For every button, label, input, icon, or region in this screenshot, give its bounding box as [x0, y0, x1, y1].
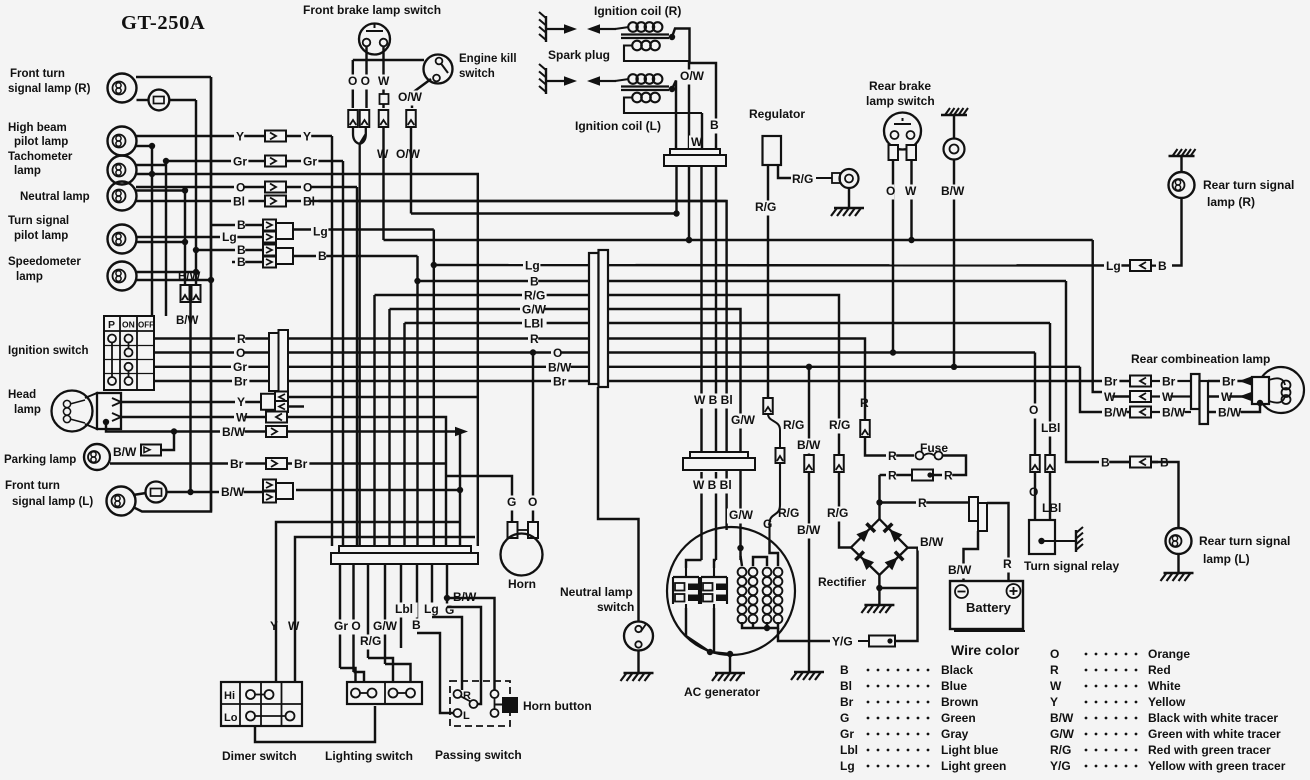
label R fuse row2 left: [886, 469, 896, 484]
svg-text:B/W: B/W: [548, 360, 572, 374]
wire R/G bus 295: [375, 295, 852, 548]
small connector square on W: [380, 94, 389, 104]
wire B row lower stub: [232, 261, 263, 263]
svg-text:O: O: [886, 184, 895, 198]
ground spark plug R: [539, 12, 546, 42]
horn terminals: [508, 522, 518, 538]
wire high beam tap: [136, 145, 152, 147]
connector battery relay step: [969, 497, 978, 521]
ground rectifier: [861, 605, 894, 613]
svg-text:W: W: [905, 184, 917, 198]
svg-text:Ignition switch: Ignition switch: [8, 345, 89, 357]
svg-text:Dimer switch: Dimer switch: [222, 749, 297, 763]
svg-text:Tachometer: Tachometer: [8, 151, 73, 163]
svg-text:R/G: R/G: [1050, 743, 1071, 757]
svg-text:O: O: [528, 495, 537, 509]
label B/W rectifier: [918, 536, 943, 551]
wire vertical x460 B/W: [459, 432, 461, 547]
wire rectifier bottom to B/W vertical: [879, 587, 917, 589]
label B/W bundle: [451, 591, 476, 606]
wire Br row cont: [288, 380, 589, 382]
bullet connector O1: [348, 110, 358, 127]
wire W to rear lamp: [1208, 395, 1252, 397]
label Lg row: [220, 231, 237, 246]
wire O bus 352 right segment: [607, 351, 1035, 353]
svg-text:Y: Y: [236, 130, 244, 144]
svg-text:Br: Br: [1222, 375, 1236, 389]
svg-text:R: R: [860, 396, 869, 410]
svg-text:Red with green tracer: Red with green tracer: [1148, 743, 1271, 757]
wire flasher to B node: [169, 99, 196, 101]
arrow Br into lamp: [1239, 376, 1252, 386]
wire bus 213 O/W: [411, 212, 677, 214]
svg-text:Gr: Gr: [233, 155, 247, 169]
svg-text:B/W: B/W: [1218, 406, 1242, 420]
contact breaker and condenser 2: [701, 568, 727, 608]
wire B/W front turn L row: [167, 491, 264, 493]
label Br ignition row: [232, 375, 249, 390]
label R fuse row2 right: [942, 469, 952, 484]
pin Y/G connector: [887, 638, 892, 643]
wire row Y: [232, 135, 332, 137]
svg-text:R: R: [530, 332, 539, 346]
label B/W rear right: [1216, 406, 1241, 421]
wire bundle below 385: [384, 564, 386, 664]
wire vertical x152 to ignition switch: [151, 146, 153, 316]
label B/W battery: [946, 564, 971, 579]
wire Lg bus 265: [434, 264, 1160, 267]
wire W down to W bus: [382, 127, 384, 240]
junction W bus coil: [686, 237, 692, 243]
regulator symbol: [763, 136, 782, 165]
svg-text:Light blue: Light blue: [941, 743, 999, 757]
label R/G regulator wire mid: [781, 419, 806, 434]
wire O into lighting switch: [354, 672, 365, 682]
svg-text:R/G: R/G: [360, 634, 381, 648]
wire B row rear: [1103, 461, 1130, 463]
wire B row upper: [211, 224, 263, 226]
svg-text:Br: Br: [230, 457, 244, 471]
bullet connector B/W rear: [1130, 407, 1151, 418]
ring terminal regulator: [832, 173, 840, 183]
bullet connector B/W left: [181, 285, 190, 302]
wire bus Bl corner down x726: [310, 201, 727, 455]
bullet connector Br rear: [1130, 376, 1151, 387]
wire coil connector down 716 to magneto: [715, 166, 717, 455]
svg-text:W B Bl: W B Bl: [693, 478, 732, 492]
svg-text:Turn signal relay: Turn signal relay: [1024, 559, 1119, 573]
junction coil L: [669, 86, 675, 92]
junction neutral stub: [182, 187, 188, 193]
wire LBl bus 323: [405, 322, 590, 324]
connector parking lamp: [141, 445, 161, 456]
connector Y/G: [869, 636, 895, 647]
wire R bus 339 right segment: [607, 339, 865, 421]
wire Lg into passing R: [432, 617, 462, 690]
svg-text:lamp: lamp: [14, 404, 41, 416]
svg-text:R: R: [1003, 557, 1012, 571]
wire regulator to ring terminal: [778, 165, 791, 178]
svg-text:Bl: Bl: [233, 195, 245, 209]
svg-text:Lo: Lo: [224, 712, 238, 724]
relay terminal dot: [1038, 538, 1044, 544]
label Br bus: [551, 375, 568, 390]
wire W output to bundle: [287, 417, 446, 546]
label Gr row Gr right: [301, 155, 318, 170]
svg-text:Br: Br: [294, 457, 308, 471]
bullet connector W rear: [1130, 391, 1151, 402]
svg-text:B: B: [237, 255, 246, 269]
label R/G regulator: [753, 201, 778, 216]
wire W into generator: [700, 472, 702, 560]
label Br row left: [228, 458, 245, 473]
svg-text:Y: Y: [303, 130, 311, 144]
rear turn signal lamp (R): [1169, 172, 1195, 198]
svg-text:Lighting switch: Lighting switch: [325, 749, 413, 763]
junction W bus rear brake: [908, 237, 914, 243]
label Br rear mid: [1160, 375, 1177, 390]
wire Y head lamp row: [121, 401, 263, 403]
wire Gr row cont: [288, 366, 589, 368]
svg-text:Horn: Horn: [508, 577, 536, 591]
dimmer switch table: [221, 682, 302, 726]
svg-text:Gr O: Gr O: [334, 619, 361, 633]
bullet connector Br: [266, 458, 287, 469]
wire ring terminal ground: [848, 188, 850, 208]
arrowhead right spark L: [564, 76, 577, 86]
svg-text:W: W: [1104, 390, 1116, 404]
wire vertical LBl x404 to bundle: [403, 323, 405, 546]
wire R/G ring lead: [816, 177, 833, 179]
wire R row to relay connector: [880, 501, 970, 503]
label R ignition row: [235, 333, 245, 348]
wire rear brake O down: [892, 160, 894, 353]
svg-text:O: O: [236, 346, 245, 360]
svg-text:lamp: lamp: [16, 271, 43, 283]
svg-text:Turn signal: Turn signal: [8, 215, 69, 227]
svg-text:R/G: R/G: [827, 506, 848, 520]
svg-text:Lg: Lg: [424, 602, 439, 616]
wire dimmer to lighting switch: [255, 706, 375, 742]
front brake lamp switch symbol: [359, 24, 390, 55]
svg-text:B/W: B/W: [797, 523, 821, 537]
label Y W dimmer: [268, 620, 278, 635]
wire Br bus 381 right segment: [607, 380, 1103, 382]
junction B bus start: [414, 278, 420, 284]
wire Gr row from ignition switch: [154, 366, 269, 368]
wire B output row: [293, 255, 418, 257]
wire Br row from ignition switch: [154, 380, 269, 382]
passing switch dashed box: [450, 681, 510, 726]
svg-text:Horn button: Horn button: [523, 699, 592, 713]
wire coil connector down 701 to magneto: [700, 166, 702, 455]
label Bl row Bl left: [231, 195, 248, 210]
arrow B/W into vertical: [455, 427, 468, 437]
label O W rear brake: [884, 185, 894, 200]
wire front turn R to node B: [136, 76, 211, 78]
wire B/W to rear lamp: [1208, 403, 1260, 412]
wire B/W front turn output: [296, 489, 460, 491]
ignition coil (L) symbol: [615, 74, 702, 113]
wire G/W into lighting switch: [385, 664, 411, 682]
wire front brake O1 jog: [353, 59, 424, 61]
svg-text:Green with white tracer: Green with white tracer: [1148, 727, 1281, 741]
svg-text:G/W: G/W: [373, 619, 398, 633]
ground rear turn signal R: [1169, 149, 1196, 156]
label B/W bus: [546, 361, 571, 376]
label B row 3: [235, 256, 245, 271]
svg-text:Lg: Lg: [525, 259, 540, 273]
wire W to dimmer: [295, 537, 475, 682]
svg-text:Y: Y: [237, 395, 245, 409]
label G horn: [505, 496, 515, 511]
label B/W generator lower: [795, 524, 820, 539]
wire O1 vertical: [352, 60, 354, 108]
bullet connector regulator R/G: [763, 398, 773, 414]
wire B/W below bullet: [808, 472, 810, 672]
svg-text:Yellow: Yellow: [1148, 695, 1186, 709]
junction R battery branch: [876, 499, 882, 505]
wire fuse right corner: [880, 456, 967, 476]
wire tach stub: [136, 164, 166, 166]
wire B/W into horn button: [447, 598, 495, 690]
wire B to rear turn L: [1151, 462, 1179, 528]
wire vertical x185 to B/W connector: [184, 191, 186, 286]
wire vertical Gr x343: [342, 161, 344, 546]
ground turn signal relay: [1076, 527, 1083, 552]
front turn signal lamp (L): [107, 487, 136, 516]
wire B bus 281: [418, 280, 1067, 282]
double connector B/Lg: [263, 220, 293, 243]
flasher unit front turn L: [146, 482, 167, 503]
svg-text:Rectifier: Rectifier: [818, 575, 866, 589]
svg-text:Yellow with green tracer: Yellow with green tracer: [1148, 759, 1286, 773]
svg-text:Head: Head: [8, 389, 36, 401]
label Y row Y left: [234, 130, 244, 145]
svg-text:B/W: B/W: [920, 535, 944, 549]
svg-text:R: R: [888, 449, 897, 463]
lighting switch contacts 1: [351, 689, 360, 698]
svg-text:lamp switch: lamp switch: [866, 94, 935, 108]
wire Y output to bundle: [288, 396, 478, 398]
label Lg bus: [523, 259, 540, 274]
svg-text:Ignition coil (R): Ignition coil (R): [594, 4, 681, 18]
svg-text:B: B: [1158, 259, 1167, 273]
label Br rear left: [1102, 375, 1119, 390]
wire relay ground lead: [1042, 540, 1077, 542]
svg-text:W: W: [378, 74, 390, 88]
svg-text:B: B: [840, 663, 849, 677]
svg-text:AC generator: AC generator: [684, 685, 760, 699]
wire B to connector from x196: [196, 249, 263, 251]
wire rear turn R ground: [1180, 156, 1182, 172]
svg-text:R/G: R/G: [755, 200, 776, 214]
svg-text:P: P: [108, 319, 115, 331]
label Gr row Gr left: [231, 155, 248, 170]
head lamp symbol: [52, 391, 122, 432]
wire vertical Y x332: [331, 136, 333, 546]
svg-text:Br: Br: [234, 375, 248, 389]
wire B/W ground down: [953, 115, 955, 139]
wire front brake O1: [365, 47, 367, 109]
label Y head lamp: [235, 396, 245, 411]
wire Br rear row: [1103, 380, 1130, 382]
bullet connector B/W head lamp: [266, 426, 287, 437]
wire B/W rear row: [1103, 411, 1130, 413]
wire vertical O x357: [356, 187, 358, 546]
svg-text:OFF: OFF: [138, 321, 154, 330]
svg-text:B: B: [710, 118, 719, 132]
junction B x196: [193, 247, 199, 253]
label O above: [1027, 404, 1037, 419]
svg-text:White: White: [1148, 679, 1181, 693]
generator coil top connections: [741, 556, 743, 566]
svg-text:Parking lamp: Parking lamp: [4, 454, 76, 466]
double connector B/W front turn L: [263, 480, 293, 503]
wire brake O merge: [353, 127, 366, 546]
bullet connector B rear: [1130, 457, 1151, 468]
connector ignition harness tall: [269, 333, 279, 391]
wire front turn L to flasher: [133, 493, 146, 495]
wire O bus corner down x1035: [1034, 353, 1036, 456]
bullet connector O2: [360, 110, 370, 127]
wire coil connector down 676: [675, 166, 677, 214]
label G lower: [761, 518, 771, 533]
label Br row right: [292, 458, 309, 473]
junction O/W at bus 213: [673, 210, 679, 216]
svg-text:Lg: Lg: [222, 230, 237, 244]
rear brake terminals: [889, 145, 899, 160]
rectifier diodes: [856, 522, 876, 542]
bullet connector Gr: [265, 156, 286, 167]
wire speedo stub1: [136, 271, 196, 273]
wire bundle below 340: [339, 564, 341, 668]
svg-text:B: B: [412, 618, 421, 632]
svg-text:G/W: G/W: [731, 413, 756, 427]
wire B/W bus corner down x1080: [1080, 367, 1103, 412]
svg-text:Rear turn signal: Rear turn signal: [1199, 534, 1290, 548]
label B output: [316, 250, 326, 265]
ground B/W frame: [941, 108, 968, 115]
label B row 2: [235, 244, 245, 259]
wire connector to battery minus B/W: [964, 531, 979, 581]
wire front brake W: [382, 47, 384, 109]
svg-text:Blue: Blue: [941, 679, 967, 693]
connector handlebar bundle bar: [339, 546, 471, 553]
svg-text:B/W: B/W: [222, 425, 246, 439]
wire engine kill O/W: [412, 79, 431, 108]
tachometer lamp: [108, 156, 137, 185]
ground AC generator: [712, 673, 745, 681]
svg-text:Front turn: Front turn: [5, 480, 60, 492]
wire LBl into relay: [1049, 472, 1051, 520]
wire Br to rear lamp: [1208, 380, 1252, 382]
svg-text:signal lamp (L): signal lamp (L): [12, 496, 93, 508]
svg-text:R/G: R/G: [792, 172, 813, 186]
svg-text:G: G: [840, 711, 849, 725]
wire B into generator: [715, 472, 717, 560]
connector main harness tall: [589, 253, 599, 384]
svg-text:Gr: Gr: [233, 360, 247, 374]
wire neutral stub: [136, 189, 185, 191]
contact breaker and condenser 1: [673, 568, 699, 608]
coil L output to W vertical: [672, 81, 676, 150]
label B rear turn R: [1156, 260, 1166, 275]
label R battery: [1001, 558, 1011, 573]
connector fuse row2: [912, 470, 933, 481]
svg-text:R/G: R/G: [524, 289, 545, 303]
svg-text:W: W: [236, 411, 248, 425]
svg-text:Gr: Gr: [840, 727, 854, 741]
wire bundle below 447: [446, 564, 448, 607]
svg-text:Front turn: Front turn: [10, 68, 65, 80]
label R/G near rectifier lower: [825, 507, 850, 522]
svg-text:Rear brake: Rear brake: [869, 79, 931, 93]
svg-text:GT-250A: GT-250A: [121, 12, 205, 34]
wire B/W single down to front turn L row: [189, 302, 191, 492]
label O horn: [526, 496, 536, 511]
svg-text:R: R: [888, 469, 897, 483]
wire O into relay: [1034, 472, 1036, 520]
wire R to fuse: [865, 437, 914, 456]
svg-text:Neutral lamp: Neutral lamp: [20, 191, 90, 203]
svg-text:B/W: B/W: [1104, 406, 1128, 420]
wire bundle below 417: [416, 564, 418, 633]
wire parking lamp B/W to head lamp row: [161, 432, 174, 451]
svg-text:O: O: [303, 181, 312, 195]
wire generator Y/G out: [778, 628, 833, 641]
wire Bl neutral lamp: [136, 200, 230, 202]
svg-text:B: B: [1101, 456, 1110, 470]
speedometer lamp: [108, 262, 137, 291]
junction parking tap: [171, 428, 177, 434]
junction O bus horn: [530, 349, 536, 355]
label B/W rear mid: [1160, 406, 1185, 421]
wire Bl into generator: [725, 455, 727, 530]
turn signal pilot lamp: [108, 225, 137, 254]
label O row O right: [301, 181, 311, 196]
battery shadow bottom: [954, 630, 1025, 632]
wire generator internal ground: [686, 608, 730, 673]
junction generator ground 2: [727, 651, 733, 657]
svg-text:Black with white tracer: Black with white tracer: [1148, 711, 1278, 725]
wire Y/G to rectifier: [895, 548, 918, 641]
svg-text:pilot lamp: pilot lamp: [14, 136, 68, 148]
label G/W bundle: [371, 620, 396, 635]
bullet connector B/W right: [192, 285, 201, 302]
label W head lamp: [234, 411, 244, 426]
label B rear left: [1099, 456, 1109, 471]
lighting switch contacts 2: [389, 689, 398, 698]
head lamp pin arrows: [112, 398, 121, 406]
wire breaker 1 feed: [686, 560, 702, 568]
junction tach lower: [149, 171, 155, 177]
svg-text:LBl: LBl: [1042, 501, 1061, 515]
junction B/W lamp base: [1257, 400, 1263, 406]
ignition coil (R) symbol: [615, 22, 689, 61]
svg-text:Passing switch: Passing switch: [435, 748, 522, 762]
svg-text:High beam: High beam: [8, 122, 67, 134]
svg-text:lamp (L): lamp (L): [1203, 552, 1250, 566]
svg-text:R: R: [237, 332, 246, 346]
connector rear combination step: [1191, 374, 1200, 409]
wire coil connector down 689: [688, 166, 690, 240]
engine kill switch symbol: [424, 55, 453, 84]
svg-text:Black: Black: [941, 663, 973, 677]
label B bundle: [410, 619, 420, 634]
junction B/W bus generator: [806, 364, 812, 370]
label B rear right: [1158, 456, 1168, 471]
